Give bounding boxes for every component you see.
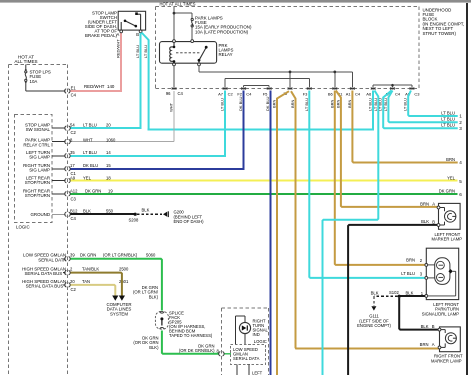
svg-text:BLK: BLK: [421, 219, 429, 224]
wire LT BLU from switch to BCM row1: [71, 33, 142, 129]
rotated wire color labels: [220, 96, 408, 111]
svg-text:10A (LATE PRODUCTION): 10A (LATE PRODUCTION): [195, 29, 249, 34]
connector F2/C4: [241, 87, 245, 89]
svg-text:BRN: BRN: [406, 258, 415, 263]
svg-text:RELAY: RELAY: [219, 52, 233, 57]
wire LT BLU 3 from B5: [383, 91, 458, 129]
arrow to computer data lines: [119, 296, 125, 301]
svg-text:C4: C4: [178, 91, 184, 96]
svg-text:C1: C1: [71, 171, 77, 176]
BCM row captions: [22, 122, 66, 288]
svg-text:3: 3: [459, 126, 462, 131]
wire LT BLU from F3 to park/turn pin3: [309, 91, 427, 278]
ground G200: [163, 212, 167, 217]
svg-text:14: 14: [106, 150, 111, 155]
svg-text:5060: 5060: [146, 253, 156, 258]
svg-text:C4: C4: [355, 91, 361, 96]
connector B5/C4: [390, 87, 394, 89]
wire WHT 1060 relay to BCM: [71, 91, 175, 142]
svg-text:B6: B6: [328, 91, 334, 96]
fuse PARK LAMPS: [191, 18, 193, 27]
svg-text:(OR DK GRN/BLK): (OR DK GRN/BLK): [179, 348, 215, 353]
svg-text:DK BLU: DK BLU: [265, 96, 270, 111]
inner low speed gmlan dashed box: [231, 344, 266, 364]
connector 96/C4: [172, 87, 176, 89]
dual filament bulb: [435, 258, 450, 285]
connector B6/C1: [333, 87, 337, 89]
svg-text:B: B: [136, 32, 139, 37]
svg-text:LT BLU: LT BLU: [402, 98, 407, 111]
right turn signal indicator: [239, 322, 250, 333]
BCM outer dashed box top edge: [9, 64, 68, 66]
svg-text:C3: C3: [414, 91, 420, 96]
svg-text:BRN: BRN: [347, 99, 352, 108]
svg-text:SYSTEM: SYSTEM: [110, 311, 128, 316]
svg-text:SERIAL DATA: SERIAL DATA: [38, 257, 66, 262]
wire YEL 18 row5: [71, 180, 458, 182]
svg-text:SERIAL DATA BUS +: SERIAL DATA BUS +: [24, 271, 66, 276]
wire BLK marker to x348 down off-page: [348, 225, 437, 375]
svg-text:LT BLU: LT BLU: [83, 150, 97, 155]
BCM pin labels: [70, 122, 156, 292]
svg-text:C2: C2: [71, 287, 77, 292]
svg-text:(OR LT GRN/BLK): (OR LT GRN/BLK): [103, 253, 138, 258]
connector pin B12: [65, 212, 70, 216]
connector pin 20: [65, 283, 70, 287]
fuse block bottom connectors: [223, 87, 414, 89]
wire TAN/BLK 2500: [71, 273, 122, 296]
connector pin 17: [65, 167, 70, 171]
connector pin A9: [65, 178, 70, 182]
svg-text:DK GRN: DK GRN: [439, 189, 455, 194]
wire LT BLU 1 from A9/C3: [408, 91, 458, 117]
SECTION:LEFTBOX: [9, 65, 68, 375]
svg-text:BRN: BRN: [420, 342, 429, 347]
svg-text:SERIAL DATA BUS -: SERIAL DATA BUS -: [26, 283, 67, 288]
svg-text:550: 550: [106, 208, 114, 213]
svg-text:B12: B12: [70, 208, 78, 213]
svg-text:SIG LAMP: SIG LAMP: [29, 168, 50, 173]
svg-text:DK BLU: DK BLU: [238, 96, 243, 111]
svg-text:DK GRN: DK GRN: [80, 253, 96, 258]
svg-text:C4: C4: [71, 216, 77, 221]
svg-text:B: B: [432, 219, 435, 224]
wire LT BLU 14 row3: [71, 91, 227, 157]
svg-text:SERIAL DATA: SERIAL DATA: [233, 356, 260, 361]
svg-text:BLK: BLK: [142, 207, 150, 212]
svg-text:MARKER LAMP: MARKER LAMP: [431, 358, 462, 363]
connector pin 8: [65, 139, 70, 143]
svg-text:10A: 10A: [30, 79, 38, 84]
label UNDERHOOD FUSE BLOCK: [423, 7, 465, 36]
connector E1/C4 at BCM edge: [65, 89, 70, 93]
svg-text:20: 20: [106, 122, 111, 127]
svg-text:C4: C4: [395, 91, 401, 96]
svg-text:LT BLU: LT BLU: [441, 123, 455, 128]
wires below inner box: [237, 364, 249, 375]
caption left front park/turn: [422, 302, 460, 316]
svg-text:LOGIC: LOGIC: [16, 225, 30, 230]
svg-text:BRN: BRN: [272, 99, 277, 108]
svg-text:S208: S208: [129, 217, 139, 222]
caption right front marker lamp: [431, 354, 463, 364]
wire TAN 2501: [71, 285, 116, 296]
label DK GRN (OR LT GRN BLK): [133, 285, 159, 299]
svg-text:A: A: [432, 342, 435, 347]
connector pin 2: [65, 270, 70, 274]
svg-text:LT BLU: LT BLU: [383, 98, 388, 111]
label computer data lines system: [106, 302, 131, 316]
svg-text:STOP/TURN: STOP/TURN: [25, 180, 50, 185]
svg-text:ALL TIMES: ALL TIMES: [14, 59, 37, 64]
BCM pin stubs and connectors: [52, 128, 66, 285]
bus B A7 to F3: [225, 78, 309, 87]
svg-text:SIG LAMP: SIG LAMP: [29, 155, 50, 160]
connector F5: [267, 87, 271, 89]
svg-text:LT BLU: LT BLU: [143, 45, 148, 58]
wire LT BLU 2 from B5: [388, 91, 457, 123]
svg-text:A6: A6: [366, 91, 372, 96]
underhood fuse block dashed box: [156, 7, 420, 89]
svg-text:LT BLU: LT BLU: [135, 45, 140, 58]
wire BLK dashed to G200: [137, 213, 162, 215]
svg-text:RELAY CTRL: RELAY CTRL: [23, 142, 50, 147]
connector pin A12: [65, 192, 70, 196]
svg-text:S102: S102: [389, 290, 399, 295]
svg-text:F5: F5: [263, 91, 268, 96]
connector J6: [288, 87, 292, 89]
svg-text:RED/WHT: RED/WHT: [84, 84, 105, 89]
stop lamp switch S1: [118, 11, 145, 30]
wire BRN 4 from A1/C4: [352, 91, 457, 163]
svg-text:LT BLU: LT BLU: [441, 110, 455, 115]
svg-text:2: 2: [420, 258, 423, 263]
connector F3: [307, 87, 311, 89]
splice S102 and BLK wires: [399, 295, 425, 297]
right front marker lamp: [440, 327, 461, 352]
svg-text:96: 96: [166, 91, 171, 96]
BCM inner LOGIC dashed box: [15, 115, 53, 223]
label DK GRN (OR DK GRN BLK) lower: [133, 335, 159, 349]
arrow to computer data lines: [112, 296, 118, 301]
wire BRN pair from J6: [277, 91, 440, 375]
svg-text:STOP/TURN: STOP/TURN: [25, 193, 50, 198]
bracket A6 to C3 with center tap: [373, 85, 412, 87]
svg-text:LT BLU: LT BLU: [367, 98, 372, 111]
svg-text:140: 140: [107, 84, 115, 89]
svg-text:C4: C4: [246, 91, 252, 96]
connector A6: [371, 87, 375, 89]
svg-text:RED/WHT: RED/WHT: [116, 39, 121, 58]
wire DK GRN 5060 low speed gmlan: [71, 259, 162, 311]
svg-text:WHT: WHT: [83, 138, 93, 143]
svg-text:BLK: BLK: [371, 290, 379, 295]
svg-text:3: 3: [420, 271, 423, 276]
svg-text:2: 2: [70, 267, 73, 272]
svg-text:BLK: BLK: [406, 290, 414, 295]
wire BRN from B6 to park/turn pin2: [335, 91, 427, 265]
splice pack SP205: [155, 312, 168, 330]
relay switch output bus A: [199, 66, 352, 87]
svg-text:BRAKE PEDAL): BRAKE PEDAL): [85, 33, 118, 38]
svg-text:BLK: BLK: [421, 324, 429, 329]
svg-text:F3: F3: [303, 91, 308, 96]
relay PRK LAMPS RELAY: [160, 42, 217, 64]
svg-text:BRN: BRN: [329, 99, 334, 108]
svg-text:C3: C3: [71, 196, 77, 201]
connector A9/C3: [410, 87, 414, 89]
BCM outer dashed box left edge: [8, 65, 10, 375]
right edge wire labels 1-6: [439, 110, 456, 193]
svg-text:1060: 1060: [106, 138, 116, 143]
wire DK GRN 19 row6: [71, 193, 458, 195]
svg-text:E1: E1: [71, 86, 77, 91]
feed wire from top edge to relay: [174, 7, 192, 41]
svg-text:2501: 2501: [119, 279, 129, 284]
label HOT AT ALL TIMES (left): [14, 55, 37, 65]
svg-text:TAPED TO HARNESS): TAPED TO HARNESS): [169, 333, 213, 338]
svg-text:ENGINE COMPT): ENGINE COMPT): [357, 323, 391, 328]
svg-text:LOGIC: LOGIC: [254, 339, 267, 344]
left front park/turn signal lamp box: [426, 248, 458, 299]
top border bar: [0, 0, 471, 3]
splice S208: [134, 213, 137, 216]
connector A7/C2: [223, 87, 227, 89]
wire BLK S102 down to right marker: [399, 298, 440, 330]
wire LT BLU from A6 jog down then across to x322 off-page: [323, 91, 379, 375]
wire DK BLU from F5 down off-page: [269, 91, 271, 375]
svg-text:LT BLU: LT BLU: [83, 122, 97, 127]
svg-text:C2: C2: [71, 130, 77, 135]
bulb: [445, 211, 456, 222]
wire LT BLU from switch to underhood fuse block A6: [142, 33, 375, 131]
svg-text:LT BLU: LT BLU: [220, 98, 225, 111]
svg-text:B: B: [432, 324, 435, 329]
svg-text:HOT AT ALL TIMES: HOT AT ALL TIMES: [160, 1, 196, 6]
svg-text:F2: F2: [237, 91, 242, 96]
svg-text:LEFT: LEFT: [252, 371, 263, 375]
indicator loop wiring: [235, 316, 245, 344]
wire BLK 550 row7 to S208: [71, 213, 136, 215]
svg-text:39: 39: [70, 253, 75, 258]
svg-text:15: 15: [106, 163, 111, 168]
svg-text:END OF DASH): END OF DASH): [174, 219, 205, 224]
stop lamp switch caption: [85, 11, 118, 38]
svg-text:35: 35: [70, 150, 75, 155]
svg-text:TAN/BLK: TAN/BLK: [82, 267, 99, 272]
svg-text:BLK): BLK): [149, 294, 159, 299]
connector pin 35: [65, 154, 70, 158]
wire BRN from B6 jog to left marker pin A: [336, 91, 439, 207]
connector A1/C4: [350, 87, 354, 89]
svg-text:BRN: BRN: [290, 99, 295, 108]
svg-text:5: 5: [459, 179, 462, 184]
svg-text:20: 20: [70, 279, 75, 284]
svg-text:STRUT TOWER): STRUT TOWER): [423, 31, 457, 36]
instrument cluster dashed box: [221, 308, 268, 375]
svg-text:1: 1: [459, 114, 462, 119]
svg-text:WHT: WHT: [168, 102, 173, 112]
svg-text:GROUND: GROUND: [30, 212, 50, 217]
right page border: [466, 3, 468, 375]
svg-text:2500: 2500: [119, 267, 129, 272]
svg-text:YEL: YEL: [447, 176, 456, 181]
svg-text:54: 54: [70, 122, 75, 127]
relay coil output wire to connector 96/C4: [173, 66, 175, 87]
svg-text:4: 4: [459, 160, 462, 165]
fuse STOP LPS 10A: [25, 65, 66, 92]
svg-text:LT BLU: LT BLU: [304, 98, 309, 111]
svg-text:6: 6: [459, 192, 462, 197]
wire DK GRN splice to turn module: [162, 331, 219, 354]
caption left front marker lamp: [432, 232, 463, 242]
ground G111: [371, 306, 376, 310]
wire RED/WHT 140: [71, 33, 123, 92]
svg-text:C2: C2: [228, 91, 234, 96]
junction: [173, 12, 176, 15]
svg-text:LT BLU: LT BLU: [401, 271, 415, 276]
svg-text:A: A: [117, 32, 120, 37]
svg-text:LT BLU: LT BLU: [441, 117, 455, 122]
connector pin 54: [65, 126, 70, 130]
svg-text:BRN: BRN: [420, 201, 429, 206]
wire DK BLU 15 row4: [71, 91, 245, 170]
svg-text:MARKER LAMP: MARKER LAMP: [432, 237, 463, 242]
svg-text:2: 2: [459, 120, 462, 125]
svg-text:IND: IND: [253, 332, 260, 337]
svg-text:A: A: [432, 202, 435, 207]
connector pin 39: [65, 257, 70, 261]
svg-text:DK BLU: DK BLU: [83, 163, 98, 168]
connector at turn module: [219, 352, 224, 356]
svg-text:TAN: TAN: [82, 279, 90, 284]
svg-text:A1: A1: [346, 91, 352, 96]
svg-text:17: 17: [70, 163, 75, 168]
svg-text:BRN: BRN: [335, 99, 340, 108]
bracket F2 to F5: [244, 85, 270, 87]
svg-text:SW SIGNAL: SW SIGNAL: [26, 127, 51, 132]
svg-text:A7: A7: [218, 91, 224, 96]
svg-text:BRN: BRN: [446, 157, 455, 162]
svg-text:1: 1: [421, 291, 424, 296]
svg-text:BLK: BLK: [83, 208, 91, 213]
left front marker lamp: [439, 203, 461, 229]
svg-text:C4: C4: [71, 92, 77, 97]
svg-text:BLK): BLK): [149, 345, 159, 350]
svg-text:SIGNAL/DRL LAMP: SIGNAL/DRL LAMP: [422, 311, 460, 316]
BCM outer dashed box right edge / connector line: [67, 65, 69, 375]
